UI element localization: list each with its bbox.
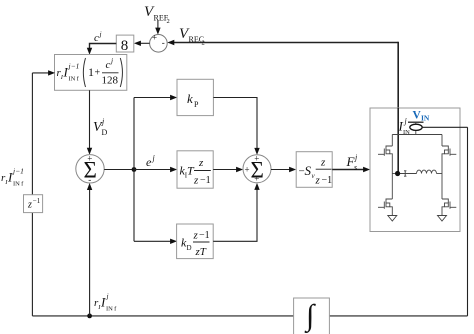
svg-text:−1: −1	[200, 175, 211, 186]
current sensor (supply bar + ellipse)	[408, 121, 424, 123]
label r_I I_INf^j	[94, 292, 117, 313]
wire left leg upper	[391, 135, 393, 147]
label V_REC2	[179, 26, 205, 47]
summing junction S1	[150, 35, 168, 53]
svg-text:1: 1	[88, 65, 94, 79]
transistor Q1 upper-left	[386, 146, 392, 150]
wire bottom feedback	[32, 315, 467, 317]
wire k_D out to SIGMA2 bottom	[213, 189, 257, 242]
svg-text:zT: zT	[195, 246, 207, 258]
wire I_IN feedback to the right and down	[422, 126, 467, 128]
transistor Q2 upper-right	[442, 146, 448, 150]
svg-text:k: k	[187, 91, 193, 106]
svg-text:j: j	[354, 153, 358, 162]
svg-text:+: +	[245, 165, 250, 175]
wire k_I out to SIGMA2 left	[213, 169, 237, 171]
wire right leg lower	[441, 174, 443, 200]
wire inductor to right leg	[437, 173, 443, 175]
svg-text:−1: −1	[199, 230, 210, 241]
svg-text:z: z	[193, 230, 199, 242]
svg-text:z: z	[198, 157, 204, 169]
transistor Q4 lower-right	[442, 199, 448, 203]
label V_IN	[413, 110, 430, 123]
svg-text:D: D	[102, 128, 108, 137]
wire branch vertical	[133, 98, 135, 242]
wire branch to k_D	[134, 240, 172, 242]
svg-text:IN f: IN f	[69, 76, 80, 83]
delay block z^-1	[24, 195, 43, 213]
wire V_REC2 vertical inside converter (redraw over box)	[397, 108, 399, 174]
wire S_v block to converter (F)	[332, 169, 364, 171]
wire V_REC2 from phase node up and into S1	[173, 42, 398, 44]
svg-text:+: +	[95, 68, 101, 79]
svg-text:∫: ∫	[304, 299, 316, 334]
label c^j	[94, 30, 102, 45]
svg-text:s: s	[354, 163, 357, 172]
svg-text:IN: IN	[421, 114, 430, 123]
svg-text:D: D	[187, 244, 192, 252]
wire right leg upper	[441, 135, 443, 147]
svg-text:IN f: IN f	[106, 306, 117, 313]
wire phase to inductor	[398, 173, 417, 175]
svg-text:−1: −1	[322, 175, 333, 186]
block k_P	[177, 79, 213, 115]
node e^j branch dot	[132, 167, 137, 172]
svg-text:j: j	[99, 30, 102, 39]
label r_I I_INf^(j-1)	[1, 167, 24, 188]
svg-text:-: -	[88, 175, 91, 185]
svg-text:j−1: j−1	[68, 62, 80, 71]
wire branch to k_P	[134, 97, 172, 99]
label V_D^j	[93, 117, 108, 137]
svg-text:j: j	[152, 154, 156, 163]
converter outer box	[370, 108, 460, 232]
wire branch to k_I block	[134, 169, 172, 171]
wire bottom node up into SIGMA1	[89, 189, 91, 316]
label F_s^j	[346, 153, 359, 172]
node phase dot	[395, 171, 400, 176]
block k_D (z-1)/zT	[177, 224, 214, 259]
svg-text:−1: −1	[33, 197, 41, 205]
ground G1	[388, 216, 397, 222]
wire stub phase node left	[391, 170, 393, 174]
svg-text:128: 128	[102, 75, 119, 87]
svg-text:8: 8	[121, 38, 129, 54]
svg-text:+: +	[254, 154, 259, 164]
summer SIGMA1	[76, 155, 104, 183]
wire left feedback vertical	[31, 73, 33, 316]
gain block 8	[116, 35, 134, 52]
transistor Q3 lower-left	[386, 199, 392, 203]
svg-text:c: c	[94, 32, 99, 44]
svg-text:j: j	[106, 292, 109, 301]
sense tick on phase wire	[404, 171, 406, 176]
inductor L	[417, 170, 437, 173]
svg-text:z: z	[315, 175, 321, 187]
block k_I T z/(z-1)	[177, 151, 213, 188]
multiplier block r_I I_INf^(j-1)(1+c^j/128)	[55, 55, 127, 91]
wire SIGMA1 output to branch node	[104, 169, 134, 171]
wire left leg lower	[391, 174, 393, 200]
label e^j	[146, 154, 156, 170]
wire k_P out to SIGMA2 top	[213, 98, 257, 150]
wire S1 to gain block 8	[139, 42, 150, 44]
node bottom junction dot	[87, 314, 92, 319]
svg-text:c: c	[106, 59, 111, 71]
svg-text:e: e	[146, 155, 152, 169]
svg-text:+: +	[152, 33, 157, 43]
block -S_v z/(z-1)	[296, 152, 332, 188]
svg-text:+: +	[254, 174, 259, 184]
svg-text:z: z	[320, 157, 326, 169]
label I_IN^j	[398, 117, 411, 137]
wire top rail of bridge	[392, 134, 442, 136]
svg-text:S: S	[305, 163, 312, 178]
wire gain 8 to multiplier box (c^j)	[90, 44, 117, 50]
label V_REF2	[144, 4, 170, 25]
svg-text:j−1: j−1	[12, 167, 24, 176]
ground G2	[438, 216, 447, 222]
svg-text:IN f: IN f	[13, 181, 24, 188]
svg-text:P: P	[194, 100, 199, 109]
svg-text:2: 2	[167, 18, 170, 25]
svg-text:j: j	[101, 117, 105, 126]
wire feedback (j-1) into multiplier box	[32, 72, 49, 74]
svg-text:-: -	[162, 38, 165, 48]
svg-text:j: j	[110, 56, 113, 65]
svg-text:z: z	[27, 200, 32, 211]
svg-text:+: +	[87, 154, 92, 164]
wire multiplier to SIGMA1 (V_D)	[89, 90, 91, 149]
wire SIGMA2 to S_v block	[271, 169, 291, 171]
integrator block	[294, 298, 330, 334]
wire V_REF2 into summer S1	[157, 20, 159, 29]
svg-text:z: z	[193, 175, 199, 187]
summer SIGMA2	[243, 155, 271, 183]
